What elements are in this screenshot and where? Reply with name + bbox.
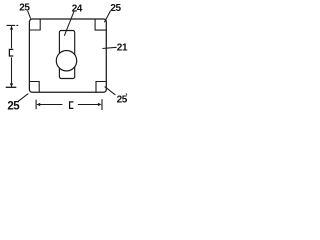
- plate outline 21: [29, 19, 106, 92]
- slot 24: [59, 31, 74, 79]
- bottom dimension C: left extension line: [35, 100, 37, 110]
- leader for label 25 bottom-right: [105, 87, 116, 95]
- prime tick after bottom-right 25: [126, 93, 127, 95]
- bottom dimension C: label: [70, 102, 74, 109]
- svg-text:25: 25: [19, 3, 30, 14]
- bottom dimension C: left line segment: [37, 104, 62, 106]
- hole circle: [56, 51, 76, 71]
- corner notch top-left 25: [30, 19, 41, 30]
- left dimension C: bottom crossbar: [6, 86, 17, 88]
- bottom dimension C: right arrow: [98, 103, 102, 106]
- svg-text:24: 24: [72, 4, 83, 15]
- leader for label 24: [64, 11, 74, 35]
- svg-text:25: 25: [7, 100, 20, 112]
- left dimension C: lower line segment: [11, 57, 13, 86]
- left dimension C: bottom arrow: [10, 83, 13, 87]
- svg-text:25: 25: [110, 3, 121, 14]
- leader for label 25 top-left: [28, 11, 31, 19]
- leader for label 25 bottom-left: [18, 94, 29, 102]
- leader for label 21: [102, 47, 116, 48]
- svg-text:21: 21: [117, 42, 128, 53]
- bottom dimension C: right line segment: [78, 104, 98, 106]
- left dimension C: label: [9, 49, 13, 56]
- bottom dimension C: left arrow: [37, 103, 41, 106]
- svg-text:25: 25: [117, 94, 128, 105]
- bottom dimension C: right extension line: [101, 99, 103, 110]
- corner notch top-right 25: [95, 19, 106, 30]
- corner notch bottom-right 25: [96, 82, 106, 93]
- corner notch bottom-left 25: [30, 82, 40, 93]
- left dimension C: top arrow: [10, 26, 13, 30]
- leader for label 25 top-right: [104, 11, 110, 23]
- left dimension C: upper line segment: [11, 26, 13, 48]
- background: [0, 0, 134, 120]
- left dimension C: top crossbar: [7, 24, 19, 26]
